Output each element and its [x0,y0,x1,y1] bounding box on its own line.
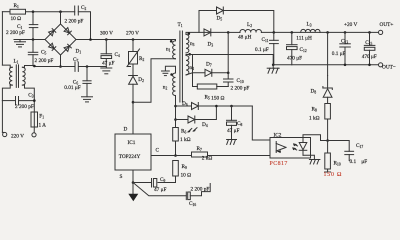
diode D4 with LED arrows [174,118,177,121]
svg-text:2 200 pF: 2 200 pF [35,58,54,64]
svg-text:111 μH: 111 μH [296,36,312,42]
svg-text:0.1 μF: 0.1 μF [255,47,269,53]
svg-text:+20 V: +20 V [344,22,358,28]
wire bridge bottom corner to line2 [60,55,62,67]
diode D2 [132,64,134,76]
node F [326,139,329,142]
resistor R5 [217,86,228,88]
diode D7 [205,69,212,76]
capacitor C10 [227,73,229,79]
svg-text:270 V: 270 V [126,30,139,36]
capacitor C13 [344,32,346,43]
node C4 tap 300V [105,38,108,41]
svg-text:2 200 pF: 2 200 pF [65,18,84,24]
wire left AC rail [1,12,3,65]
diode D5 [217,7,224,14]
svg-text:47 μF: 47 μF [102,60,114,66]
wire bridge top corner to AC top line [60,12,62,24]
wire top AC line [2,11,10,13]
svg-text:1 kΩ: 1 kΩ [180,137,191,143]
resistor R6 [173,128,179,142]
resistor R9 [173,161,179,177]
terminal 220V right [32,133,36,137]
wire bias line n2 bottom [175,96,177,128]
inductor L2 [228,31,240,33]
svg-text:OUT+: OUT+ [380,22,394,28]
node C2 tap on DC rail [89,38,92,41]
node C5 tap on line2 [33,65,36,68]
pin S [132,170,134,183]
node D5 join / C11 [273,31,276,34]
node C6 tap [86,65,89,68]
svg-text:470 μF: 470 μF [287,56,302,62]
ground (C8) [227,139,237,141]
node bridge bottom on line2 [59,65,62,68]
wire R1 to C2 [26,11,75,13]
node C1-C5 junction on DC minus [32,38,35,41]
ground (OUT-) [272,65,274,68]
svg-text:S: S [120,174,123,180]
svg-text:220 V: 220 V [11,134,24,140]
optocoupler IC2 [270,138,311,159]
capacitor C7 (series on line2) [75,62,78,71]
winding n4 [186,56,189,75]
wire left rail to terminal [1,101,3,133]
winding n3 [186,34,189,52]
node bridge top tap [59,10,62,13]
capacitor C12 electrolytic [291,32,293,44]
svg-text:IC2: IC2 [274,132,282,138]
wire left rail lower segment [2,85,10,101]
capacitor C8 electrolytic [230,105,233,108]
wire n3 top to output line [186,32,228,34]
pin C [151,155,192,157]
inductor L3 [301,29,320,32]
svg-text:0.01 μF: 0.01 μF [64,85,80,91]
wire OUT- rail [273,64,378,66]
resistor R7 [192,152,208,157]
wire LED anode to node F [303,135,328,141]
bridge rectifier D1 [45,24,76,55]
svg-text:150 Ω: 150 Ω [324,172,343,178]
node D3 out [227,31,230,34]
terminal OUT- [379,63,383,67]
node C15 [368,31,371,34]
capacitor C17 [328,141,350,152]
wire DC+ rail 300V [76,39,171,41]
svg-text:2 200 pF: 2 200 pF [6,30,25,36]
svg-text:PC817: PC817 [270,161,288,167]
wire n4 bottom / D7 anode [193,55,206,73]
wire line2 down leg [25,85,35,112]
node C13 [344,31,347,34]
wire D8 chain vertical [327,32,329,75]
node D8 chain [326,31,329,34]
terminal OUT+ [379,30,383,34]
svg-text:10 Ω: 10 Ω [11,16,22,22]
fuse F1 [31,112,38,127]
winding n1 [170,40,173,43]
capacitor C4 electrolytic [105,40,107,54]
wire n2 top to ground [165,66,175,73]
capacitor C9 electrolytic [153,179,156,188]
wire bias to IC2 [252,106,270,140]
node R2 tap 270V [132,38,135,41]
capacitor C5 [32,40,34,53]
LED of IC2 [302,138,304,143]
ground (C4) [101,67,112,69]
svg-text:OUT−: OUT− [382,65,396,71]
wire line2 to bridge and C7 [34,66,106,67]
wire LED cathode to ground [303,155,314,159]
ground (LED cathode) [309,159,320,161]
wire primary bottom return [133,59,176,102]
svg-text:C: C [156,147,160,153]
resistor R10 [327,141,329,154]
svg-text:47 μF: 47 μF [227,128,239,134]
node C12 [291,31,294,34]
diode D3 [204,29,211,36]
diode D6 [176,105,192,107]
svg-text:IC1: IC1 [128,140,136,146]
terminal 220V left [3,132,7,136]
wire D3 node down to D7 [227,32,229,72]
svg-text:470 μF: 470 μF [362,54,377,60]
pin D [132,102,134,134]
wire D5 branch up [199,11,217,33]
varistor R2 [132,40,134,52]
capacitor C3 [2,100,15,102]
capacitor C2 [74,6,76,15]
svg-text:D: D [124,126,128,132]
ground (S) triangle [132,183,134,194]
capacitor C6 [86,67,88,81]
capacitor C15 electrolytic [369,32,371,45]
svg-text:47 μF: 47 μF [154,187,166,193]
capacitor C11 [273,32,275,40]
wire DC minus from bridge left corner [14,39,45,41]
capacitor C16 [185,192,187,200]
svg-text:48 μH: 48 μH [238,34,251,40]
node C1 tap [32,10,35,13]
svg-text:2 200 pF: 2 200 pF [15,104,34,110]
ground (C6) [82,96,93,98]
ground (DC minus) [19,40,21,42]
wire center tap to OUT- [188,53,191,56]
svg-text:1 A: 1 A [39,123,47,129]
svg-text:R5 150 Ω: R5 150 Ω [205,95,225,102]
svg-text:1 kΩ: 1 kΩ [309,115,320,121]
svg-text:0.1 μF: 0.1 μF [350,159,368,165]
wire C2 down to DC rail [78,12,90,40]
capacitor C1 [32,12,34,25]
ground (n2 top) [162,70,170,72]
svg-text:300 V: 300 V [100,31,113,37]
node D pin junction [132,101,135,104]
resistor R8 [325,104,331,120]
winding n2 [173,73,176,96]
svg-text:0.1 μF: 0.1 μF [332,51,346,57]
svg-text:2 200 pF: 2 200 pF [231,86,250,92]
svg-text:2 kΩ: 2 kΩ [202,155,213,161]
IC1 TOP224Y [115,134,151,170]
wire S diagonal to C16 [133,183,186,196]
node C3 tap on line2 leg [33,99,36,102]
svg-text:TOP224Y: TOP224Y [119,154,141,160]
svg-text:10 Ω: 10 Ω [181,172,192,178]
resistor R1 [10,9,26,14]
phototransistor of IC2 [275,142,277,153]
